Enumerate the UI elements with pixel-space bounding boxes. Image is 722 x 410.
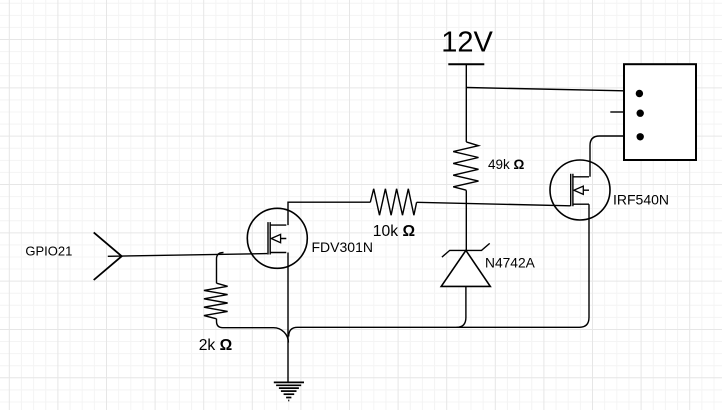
wire GPIO21 to FDV301N gate: [108, 254, 267, 257]
svg-text:N4742A: N4742A: [485, 256, 536, 271]
svg-text:IRF540N: IRF540N: [613, 192, 669, 208]
input port GPIO21 chevron: [94, 232, 122, 280]
svg-text:2k Ω: 2k Ω: [199, 337, 233, 354]
svg-text:FDV301N: FDV301N: [312, 239, 373, 255]
wire 49k bottom through node to zener cathode: [465, 190, 467, 250]
wire 12V rail to connector pin1: [466, 88, 624, 91]
transistor IRF540N (NMOS): [550, 160, 610, 220]
wire connector pin3 to IRF540N drain: [590, 136, 624, 177]
connector pin2 stub: [610, 111, 624, 113]
ground: [274, 382, 304, 400]
resistor 10k: [370, 189, 416, 215]
resistor 2k: [204, 283, 228, 319]
wire IRF540N source down to ground rail: [289, 204, 589, 336]
zener diode N4742A: [441, 243, 490, 327]
wire 10k right lead through node to IRF540N gate: [417, 202, 571, 206]
svg-text:12V: 12V: [441, 27, 493, 59]
wire FDV301N drain up and right to 10k left lead: [288, 202, 370, 225]
power rail 12V symbol: [448, 64, 484, 142]
connector J1: [624, 64, 696, 160]
svg-text:GPIO21: GPIO21: [25, 244, 72, 259]
wire 2k bottom to ground rail: [217, 319, 289, 343]
svg-text:10k Ω: 10k Ω: [373, 223, 415, 240]
wire FDV301N source down to ground: [287, 253, 289, 382]
svg-text:49k Ω: 49k Ω: [488, 157, 525, 172]
wire gate wire branch down to 2k top: [217, 253, 224, 284]
transistor FDV301N (NMOS): [247, 208, 307, 268]
resistor 49k: [453, 142, 478, 190]
